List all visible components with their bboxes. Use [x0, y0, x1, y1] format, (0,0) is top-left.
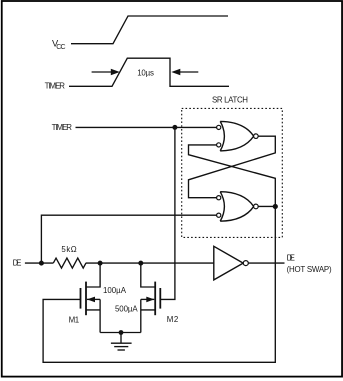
ground	[111, 333, 132, 351]
node junction TIMER/M2-gate	[172, 125, 177, 130]
transistor M2	[141, 263, 161, 332]
wire arrow right (points left at falling edge)	[171, 69, 198, 75]
node junction DE	[39, 261, 44, 266]
wire top gate lower input feedback from bottom output	[189, 145, 276, 207]
svg-text:500µA: 500µA	[115, 304, 138, 313]
node junction M2 drain	[138, 261, 143, 266]
svg-text:CC: CC	[56, 44, 65, 51]
svg-text:TIMER: TIMER	[45, 82, 66, 91]
node junction ground	[119, 330, 124, 335]
svg-text:SR LATCH: SR LATCH	[212, 96, 248, 105]
svg-text:100µA: 100µA	[103, 286, 127, 295]
node DE (HOT SWAP) label	[287, 254, 332, 274]
svg-text:5kΩ: 5kΩ	[61, 245, 76, 254]
wire TIMER waveform	[69, 58, 229, 86]
wire source join	[100, 332, 141, 334]
wire arrow left (points right at rising edge)	[92, 69, 120, 75]
wire TIMER input to latch S input	[76, 126, 217, 128]
node junction latch output	[273, 204, 278, 209]
svg-text:M1: M1	[69, 315, 80, 324]
transistor M1	[81, 263, 101, 332]
svg-text:DE: DE	[13, 259, 22, 268]
svg-text:TIMER: TIMER	[52, 123, 73, 132]
op-amp U3: output buffer inverter	[214, 246, 249, 280]
wire resistor to buffer input	[86, 262, 214, 264]
resistor R1 5k	[53, 258, 86, 268]
node junction M1 drain	[98, 261, 103, 266]
wire latch output feedback loop to M1 gate	[43, 206, 275, 362]
wire top gate output to bottom gate input (cross couple)	[189, 136, 276, 198]
op-amp U2: bottom NOR gate of latch	[217, 192, 259, 222]
wire latch R input	[41, 215, 216, 263]
svg-text:DE: DE	[287, 254, 295, 263]
wire VCC waveform	[71, 16, 228, 44]
op-amp U1: top NOR gate of latch	[217, 121, 259, 150]
svg-text:(HOT SWAP): (HOT SWAP)	[287, 265, 332, 274]
wire bottom gate output	[258, 205, 275, 207]
wire TIMER down to M2 gate	[160, 127, 175, 299]
node VCC label	[52, 39, 66, 51]
svg-text:M2: M2	[167, 315, 179, 324]
svg-text:10µs: 10µs	[137, 68, 154, 77]
wire buffer output	[248, 262, 284, 264]
wire SR latch dashed box	[182, 108, 283, 237]
wire DE input	[25, 262, 53, 264]
